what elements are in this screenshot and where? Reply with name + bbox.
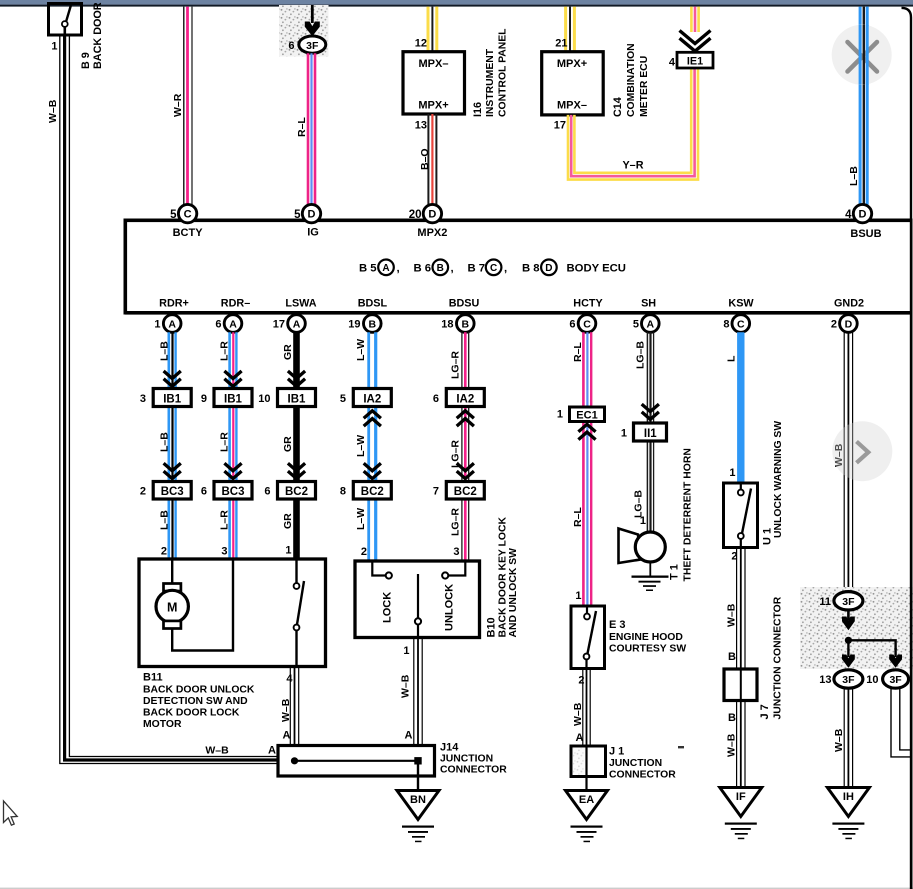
svg-text:JUNCTION CONNECTOR: JUNCTION CONNECTOR — [773, 596, 784, 719]
svg-text:LG–B: LG–B — [635, 341, 647, 369]
column BDSL : wire L-W — [369, 332, 376, 561]
junction connector J1 — [571, 746, 606, 791]
bus pin 5 D IG — [302, 204, 320, 222]
svg-text:L–B: L–B — [159, 432, 171, 452]
motor brush top — [164, 584, 181, 592]
bus pin 5 A SH — [633, 315, 659, 333]
svg-text:A: A — [293, 319, 301, 331]
svg-text:A: A — [382, 263, 389, 274]
svg-text:L–B: L–B — [848, 166, 860, 186]
wire Y-R from C14 pin 17 to IE1 — [568, 68, 698, 180]
svg-text:B: B — [462, 319, 470, 331]
bus pin 18 B BDSU — [441, 315, 474, 333]
svg-text:W–B: W–B — [833, 728, 845, 752]
svg-text:12: 12 — [415, 38, 427, 50]
column RDR- : wire L-R — [230, 332, 237, 559]
wire W-B from E3 to J1 — [583, 669, 590, 747]
svg-text:W–B: W–B — [400, 674, 412, 698]
bus pin 8 C KSW — [723, 315, 749, 333]
svg-text:T 1: T 1 — [669, 564, 681, 580]
switch B9 BACK DOOR — [49, 4, 82, 36]
svg-text:GR: GR — [282, 344, 294, 360]
svg-text:EA: EA — [579, 794, 594, 806]
svg-text:R–L: R–L — [296, 117, 308, 137]
svg-text:LG–R: LG–R — [450, 351, 462, 379]
svg-text:3F: 3F — [889, 674, 902, 686]
svg-text:6: 6 — [433, 393, 439, 405]
bus pin 19 B BDSL — [348, 315, 381, 333]
connector IA2 pin 6 — [446, 389, 484, 407]
svg-text:B 5: B 5 — [359, 263, 377, 275]
svg-text:L: L — [726, 355, 738, 362]
column GND2 : wire W-B — [844, 332, 852, 592]
wire L-B over close button — [860, 25, 867, 85]
svg-text:L–W: L–W — [355, 435, 367, 457]
svg-text:13: 13 — [415, 120, 427, 132]
svg-text:10: 10 — [258, 393, 270, 405]
svg-text:B: B — [728, 651, 736, 663]
svg-text:2: 2 — [578, 675, 584, 687]
svg-text:II1: II1 — [644, 428, 657, 440]
svg-text:C: C — [490, 263, 497, 274]
svg-text:2: 2 — [140, 486, 146, 498]
svg-text:RDR–: RDR– — [221, 298, 250, 310]
halftone patch bottom right — [800, 587, 913, 669]
junction connector J14 — [278, 746, 435, 791]
chevrons up below EC1 — [578, 424, 595, 439]
svg-text:17: 17 — [273, 319, 285, 331]
svg-text:IB1: IB1 — [224, 394, 243, 406]
label J1 JUNCTION CONNECTOR — [609, 746, 676, 781]
svg-text:B11: B11 — [143, 672, 163, 684]
svg-text:,: , — [397, 263, 400, 275]
svg-text:L–R: L–R — [219, 341, 231, 361]
svg-text:BC2: BC2 — [361, 486, 384, 498]
svg-text:L–B: L–B — [159, 341, 171, 361]
column HCTY : wire R-L — [583, 332, 591, 606]
bus pin 6 A RDR- — [215, 315, 241, 333]
svg-text:UNLOCK: UNLOCK — [444, 584, 456, 631]
svg-text:1: 1 — [729, 467, 735, 479]
svg-text:COMBINATION: COMBINATION — [626, 43, 637, 117]
svg-text:COURTESY SW: COURTESY SW — [609, 644, 686, 655]
label B9 BACK DOOR — [80, 2, 104, 69]
wire R-L — [308, 53, 315, 205]
chevrons into BC2 — [288, 463, 305, 478]
bus pin 6 C HCTY — [569, 315, 595, 333]
svg-text:8: 8 — [723, 319, 729, 331]
svg-text:D: D — [545, 263, 552, 274]
svg-text:11: 11 — [819, 596, 831, 608]
browser top bar — [0, 0, 913, 5]
svg-text:,: , — [504, 263, 507, 275]
svg-text:1: 1 — [621, 428, 627, 440]
chevrons into IB1 — [288, 371, 305, 386]
stray dash — [678, 746, 684, 748]
svg-text:LG–R: LG–R — [450, 508, 462, 536]
svg-text:IH: IH — [843, 791, 854, 803]
svg-text:L–W: L–W — [355, 339, 367, 361]
wire Y-R stub above IE1 — [691, 7, 698, 32]
svg-text:W–B: W–B — [572, 702, 584, 726]
svg-text:W–R: W–R — [172, 93, 184, 117]
ground IH — [827, 788, 869, 840]
svg-text:BODY ECU: BODY ECU — [567, 263, 626, 275]
arrow into connector 3F — [305, 5, 320, 36]
svg-text:5: 5 — [294, 209, 301, 221]
chevrons up below IA2 — [364, 411, 381, 426]
body ECU connector legend B5 A B6 B B7 C B8 D — [359, 260, 626, 276]
svg-text:DETECTION SW AND: DETECTION SW AND — [143, 696, 248, 707]
label U1 UNLOCK WARNING SW — [762, 421, 785, 545]
ground EA — [566, 791, 608, 843]
svg-text:C: C — [737, 319, 745, 331]
svg-text:J 7: J 7 — [759, 704, 771, 719]
wire W-R — [184, 7, 192, 205]
svg-text:1: 1 — [51, 41, 57, 53]
svg-text:17: 17 — [554, 120, 566, 132]
svg-text:LSWA: LSWA — [285, 298, 316, 310]
component B11 box — [139, 559, 326, 667]
connector EC1 pin 1 — [570, 407, 605, 422]
svg-text:MPX+: MPX+ — [418, 100, 448, 112]
svg-text:ENGINE HOOD: ENGINE HOOD — [609, 632, 683, 643]
arrow into 3F-13 — [842, 640, 855, 668]
connector BC3 pin 6 — [214, 482, 252, 500]
svg-text:W–B: W–B — [726, 603, 738, 627]
svg-text:BACK DOOR UNLOCK: BACK DOOR UNLOCK — [143, 685, 255, 696]
svg-text:BC2: BC2 — [285, 486, 308, 498]
connector IB1 pin 9 — [214, 389, 252, 407]
svg-text:D: D — [845, 319, 853, 331]
svg-text:5: 5 — [633, 319, 639, 331]
svg-text:2: 2 — [831, 319, 837, 331]
svg-text:BACK DOOR LOCK: BACK DOOR LOCK — [143, 708, 240, 719]
label T1 THEFT DETERRENT HORN — [669, 448, 694, 581]
component B10 box — [355, 561, 480, 638]
svg-text:L–W: L–W — [355, 508, 367, 530]
lock contact — [372, 561, 392, 579]
bus pin 20 D MPX2 — [423, 204, 441, 222]
arrow into 3F-10 — [889, 648, 902, 668]
svg-text:J 1: J 1 — [609, 746, 624, 758]
wire L-B to BSUB — [860, 7, 867, 205]
chevrons into IB1 — [224, 371, 241, 386]
arrow below 3F-11 — [842, 610, 855, 630]
svg-text:8: 8 — [340, 486, 346, 498]
ECU C14 COMBINATION METER ECU — [542, 52, 604, 115]
svg-text:J14: J14 — [440, 742, 459, 754]
chevrons into BC3 — [224, 463, 241, 478]
svg-text:METER ECU: METER ECU — [639, 56, 650, 117]
svg-text:6: 6 — [569, 319, 575, 331]
svg-text:B 8: B 8 — [522, 263, 540, 275]
label J14 JUNCTION CONNECTOR — [440, 742, 507, 776]
svg-text:MPX2: MPX2 — [417, 227, 447, 239]
svg-text:SH: SH — [641, 298, 656, 310]
column LSWA : wire GR — [293, 332, 300, 559]
bus pin 5 C BCTY — [178, 204, 196, 222]
svg-text:B 7: B 7 — [468, 263, 486, 275]
svg-text:IB1: IB1 — [163, 394, 182, 406]
connector BC2 pin 8 — [353, 482, 391, 500]
next page button — [832, 421, 892, 481]
column RDR+ : wire L-B — [169, 332, 176, 559]
wire W-B from J7 to IF — [737, 701, 745, 788]
svg-text:B 6: B 6 — [414, 263, 432, 275]
wire W-B from B11 pin 4 to J14 — [290, 667, 298, 746]
connector IE1 pin 4 — [677, 52, 713, 68]
svg-text:BACK DOOR KEY LOCK: BACK DOOR KEY LOCK — [498, 517, 509, 638]
svg-text:IB1: IB1 — [288, 394, 307, 406]
svg-text:C: C — [583, 319, 591, 331]
svg-text:13: 13 — [819, 674, 831, 686]
label J7 JUNCTION CONNECTOR — [759, 596, 784, 719]
bottom edge line — [0, 888, 913, 889]
svg-text:18: 18 — [441, 319, 453, 331]
svg-text:1: 1 — [640, 515, 646, 527]
svg-text:BC2: BC2 — [454, 486, 477, 498]
column SH : wire LG-B — [647, 332, 653, 532]
wire W-B from B10 pin 1 to J14 — [414, 638, 422, 746]
svg-text:W–B: W–B — [726, 733, 738, 757]
svg-text:W–B: W–B — [47, 99, 59, 123]
svg-text:E 3: E 3 — [609, 619, 626, 631]
svg-text:IG: IG — [307, 227, 319, 239]
svg-text:JUNCTION: JUNCTION — [440, 754, 493, 765]
wire to motor inside B11 — [171, 559, 173, 584]
connector BC3 pin 2 — [153, 482, 191, 500]
motor M — [156, 590, 188, 622]
svg-text:C: C — [184, 209, 192, 221]
label E3 ENGINE HOOD COURTESY SW — [609, 619, 686, 655]
switch pole in B10 — [415, 574, 421, 638]
svg-text:BCTY: BCTY — [173, 227, 204, 239]
bus pin 4 D BSUB — [853, 204, 871, 222]
svg-text:B: B — [369, 319, 377, 331]
svg-text:LG–B: LG–B — [633, 490, 645, 518]
svg-text:L–R: L–R — [219, 432, 231, 452]
bus pin 1 A RDR+ — [154, 315, 181, 333]
bus pin 17 A LSWA — [273, 315, 306, 333]
switch in B11 — [294, 559, 304, 667]
right border over patch — [910, 587, 913, 669]
junction connector J7 — [724, 669, 757, 701]
svg-text:B: B — [728, 712, 736, 724]
svg-text:D: D — [308, 209, 316, 221]
svg-text:IA2: IA2 — [363, 394, 381, 406]
svg-text:10: 10 — [866, 674, 878, 686]
chevrons into II1 — [642, 404, 659, 419]
svg-text:KSW: KSW — [728, 298, 754, 310]
svg-text:A: A — [576, 732, 584, 744]
wire W-B from 3F-10 to right edge — [891, 688, 911, 757]
wire to right branch — [848, 640, 895, 650]
svg-text:Y–R: Y–R — [622, 160, 643, 172]
svg-text:3F: 3F — [842, 596, 855, 608]
chevrons into IB1 — [164, 371, 181, 386]
label I16 INSTRUMENT CONTROL PANEL — [472, 28, 509, 117]
svg-text:B–O: B–O — [419, 148, 431, 170]
svg-text:1: 1 — [154, 319, 160, 331]
svg-text:6: 6 — [201, 486, 207, 498]
svg-text:A: A — [229, 319, 237, 331]
svg-text:6: 6 — [288, 40, 294, 52]
svg-text:R–L: R–L — [572, 342, 584, 362]
svg-text:MPX–: MPX– — [419, 58, 449, 70]
svg-text:1: 1 — [285, 545, 291, 557]
svg-text:A: A — [168, 319, 176, 331]
svg-text:D: D — [428, 209, 436, 221]
svg-text:CONNECTOR: CONNECTOR — [440, 765, 507, 776]
svg-text:BN: BN — [410, 794, 426, 806]
label B11 BACK DOOR UNLOCK DETECTION SW AND BACK DOOR LOCK MOTOR — [143, 672, 255, 731]
switch E3 ENGINE HOOD COURTESY SW — [571, 606, 605, 669]
svg-text:1: 1 — [557, 409, 563, 421]
svg-text:GR: GR — [282, 513, 294, 529]
svg-text:B: B — [437, 263, 444, 274]
svg-text:C14: C14 — [612, 97, 624, 117]
connector 3F pin 11 — [834, 592, 863, 610]
chevrons into BC2 — [457, 463, 474, 478]
connector BC2 pin 7 — [446, 482, 484, 500]
svg-text:,: , — [451, 263, 454, 275]
svg-text:IE1: IE1 — [687, 55, 703, 67]
chevrons into BC3 — [164, 463, 181, 478]
connector IA2 pin 5 — [353, 389, 391, 407]
svg-text:A: A — [647, 319, 655, 331]
svg-text:IF: IF — [736, 791, 746, 803]
svg-text:GR: GR — [282, 436, 294, 452]
svg-text:CONTROL PANEL: CONTROL PANEL — [498, 28, 509, 117]
wire Y into I16 pin 12 — [428, 7, 437, 52]
chevrons up below IA2 — [457, 411, 474, 426]
svg-text:U 1: U 1 — [762, 528, 774, 545]
svg-text:5: 5 — [340, 393, 346, 405]
wire W-B from 3F-13 to IH — [844, 688, 852, 787]
chevrons above IE1 — [680, 31, 711, 52]
svg-text:HCTY: HCTY — [573, 298, 603, 310]
svg-text:1: 1 — [403, 645, 409, 657]
svg-text:20: 20 — [409, 209, 422, 221]
svg-text:CONNECTOR: CONNECTOR — [609, 770, 676, 781]
wire Y into C14 pin 21 — [566, 7, 575, 52]
wire W-B from B9 down and right to J14 — [60, 35, 278, 764]
motor brush bottom — [164, 621, 181, 629]
connector IB1 pin 10 — [278, 389, 316, 407]
connector IB1 pin 3 — [153, 389, 191, 407]
close button — [832, 25, 892, 85]
label C14 COMBINATION METER ECU — [612, 43, 650, 117]
svg-text:BDSU: BDSU — [449, 298, 480, 310]
svg-text:6: 6 — [264, 486, 270, 498]
svg-text:3: 3 — [221, 546, 227, 558]
svg-text:7: 7 — [433, 486, 439, 498]
svg-text:21: 21 — [555, 38, 567, 50]
svg-text:2: 2 — [361, 546, 367, 558]
svg-text:AND UNLOCK SW: AND UNLOCK SW — [508, 548, 519, 638]
svg-text:3F: 3F — [306, 40, 319, 52]
svg-text:GND2: GND2 — [834, 298, 864, 310]
svg-text:THEFT DETERRENT HORN: THEFT DETERRENT HORN — [683, 448, 694, 581]
svg-text:BC3: BC3 — [221, 486, 244, 498]
svg-text:19: 19 — [348, 319, 360, 331]
svg-text:B 9: B 9 — [80, 52, 92, 69]
svg-text:RDR+: RDR+ — [159, 298, 189, 310]
svg-text:A: A — [268, 745, 276, 757]
svg-text:4: 4 — [845, 209, 852, 221]
svg-text:3: 3 — [140, 393, 146, 405]
svg-text:A: A — [405, 730, 413, 742]
svg-text:5: 5 — [170, 209, 177, 221]
halftone patch at top 3F — [279, 5, 329, 57]
svg-text:UNLOCK WARNING SW: UNLOCK WARNING SW — [773, 421, 784, 538]
ground BN — [397, 791, 439, 843]
svg-text:EC1: EC1 — [576, 410, 597, 422]
label B10 BACK DOOR KEY LOCK AND UNLOCK SW — [486, 517, 520, 638]
svg-text:MPX–: MPX– — [557, 100, 587, 112]
svg-text:L–R: L–R — [219, 510, 231, 530]
svg-text:I16: I16 — [472, 102, 484, 117]
wire W-B from U1 to J7 — [737, 548, 745, 670]
connector 3F pin 13 — [834, 670, 863, 688]
svg-text:LOCK: LOCK — [382, 592, 394, 623]
svg-text:MPX+: MPX+ — [557, 58, 587, 70]
svg-text:JUNCTION: JUNCTION — [609, 758, 662, 769]
svg-text:BSUB: BSUB — [850, 228, 881, 240]
svg-text:4: 4 — [669, 57, 676, 69]
connector 3F pin 6 — [299, 36, 326, 53]
svg-text:B10: B10 — [486, 617, 498, 637]
svg-text:3: 3 — [453, 546, 459, 558]
svg-text:9: 9 — [201, 393, 207, 405]
svg-text:6: 6 — [215, 319, 221, 331]
svg-text:D: D — [859, 209, 867, 221]
unlock contact — [442, 561, 465, 579]
svg-text:IA2: IA2 — [456, 394, 474, 406]
svg-text:M: M — [167, 601, 177, 615]
svg-text:MOTOR: MOTOR — [143, 719, 182, 730]
svg-text:3F: 3F — [842, 674, 855, 686]
svg-text:INSTRUMENT: INSTRUMENT — [485, 48, 496, 117]
svg-text:BC3: BC3 — [161, 486, 184, 498]
wire from motor to pin3 line — [172, 559, 233, 651]
svg-text:1: 1 — [575, 590, 581, 602]
bus pin 2 D GND2 — [831, 315, 857, 333]
junction node — [845, 637, 852, 644]
svg-text:A: A — [283, 730, 291, 742]
svg-text:BDSL: BDSL — [358, 298, 388, 310]
connector II1 pin 1 — [634, 423, 667, 441]
svg-text:W–B: W–B — [280, 698, 292, 722]
svg-text:2: 2 — [161, 546, 167, 558]
svg-text:W–B: W–B — [205, 745, 229, 757]
horn T1 — [619, 529, 669, 592]
ECU I16 INSTRUMENT CONTROL PANEL — [403, 52, 465, 114]
wire B-O — [428, 114, 436, 205]
svg-text:R–L: R–L — [572, 507, 584, 527]
svg-text:BACK DOOR: BACK DOOR — [92, 2, 104, 69]
column KSW : wire L — [737, 332, 744, 483]
ground IF — [720, 788, 762, 840]
mouse cursor — [4, 801, 18, 825]
connector BC2 pin 6 — [278, 482, 316, 500]
column BDSU : wire LG-R — [462, 332, 469, 561]
connector 3F pin 10 — [883, 670, 909, 688]
switch U1 UNLOCK WARNING SW — [724, 483, 758, 548]
svg-text:L–B: L–B — [159, 510, 171, 530]
chevrons into BC2 — [364, 463, 381, 478]
